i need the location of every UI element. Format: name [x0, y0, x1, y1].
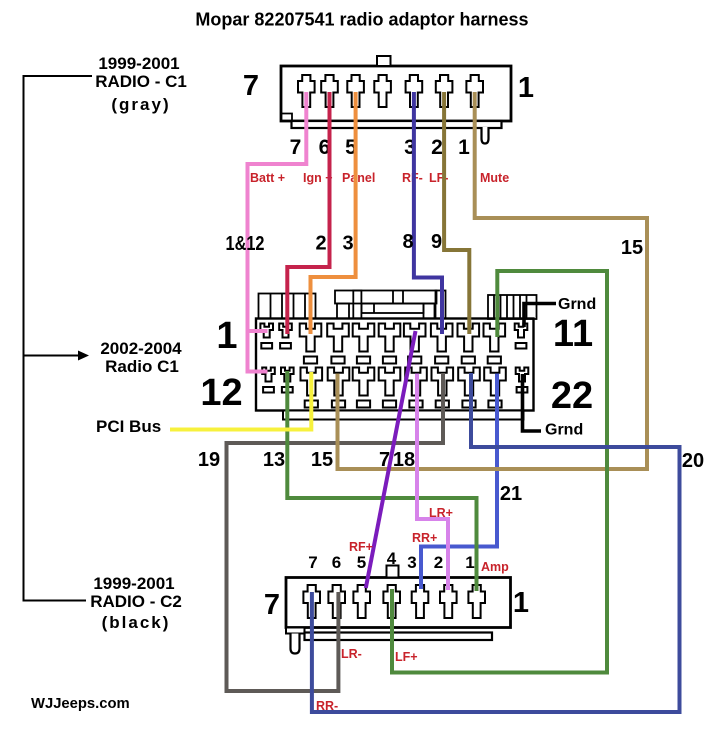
svg-text:RR-: RR- — [316, 699, 338, 713]
connector C1 gray pin cavity 7 — [298, 75, 315, 107]
connector 2002 C1 pin 2 — [279, 324, 292, 338]
wire LR- gray pin19 to C2 pin6 — [227, 373, 444, 691]
wire RR- navy pin20 to C2 pin7 — [312, 373, 680, 712]
svg-text:Batt +: Batt + — [250, 171, 285, 185]
svg-text:2: 2 — [431, 136, 443, 159]
svg-text:1999-2001: 1999-2001 — [93, 574, 174, 593]
svg-text:Grnd: Grnd — [545, 422, 583, 439]
svg-text:1: 1 — [465, 553, 474, 572]
connector 2002 C1 pin 9 — [458, 324, 480, 352]
svg-text:5: 5 — [357, 553, 366, 572]
svg-text:7: 7 — [290, 136, 302, 159]
svg-text:15: 15 — [311, 449, 333, 471]
svg-text:1999-2001: 1999-2001 — [98, 54, 179, 73]
connector 2002 C1 pin 12 — [262, 368, 275, 382]
label 2002-2004 Radio C1 — [100, 339, 182, 376]
connector 2002 C1 pin 4 — [327, 324, 349, 352]
wire Grnd black pin11 — [524, 304, 556, 328]
connector C2 black pin cavity 7 — [303, 585, 320, 618]
connector C2 black pin cavity 1 — [468, 585, 485, 618]
svg-text:11: 11 — [553, 313, 593, 355]
svg-text:Radio C1: Radio C1 — [105, 357, 179, 376]
svg-text:20: 20 — [682, 450, 704, 472]
svg-text:1: 1 — [458, 136, 470, 159]
connector 2002 C1 pin 18 — [405, 368, 427, 396]
svg-text:LR-: LR- — [341, 647, 362, 661]
svg-text:LR+: LR+ — [429, 506, 453, 520]
svg-text:12: 12 — [200, 372, 242, 414]
wire LR+ orchid pin18 to C2 pin2 — [417, 374, 448, 591]
connector C2 black body — [286, 566, 511, 654]
svg-text:9: 9 — [431, 231, 442, 253]
svg-text:3: 3 — [342, 233, 353, 255]
connector 2002 C1 pin 19 — [432, 368, 454, 396]
connector C1 gray pin cavity 6 — [321, 75, 338, 107]
pin numbers C1 gray — [290, 136, 471, 159]
connector 2002 C1 pin 10 — [484, 324, 506, 352]
connector 2002 C1 pin 22 — [516, 368, 529, 382]
svg-text:13: 13 — [263, 449, 285, 471]
label 1999-2001 RADIO - C2 (black) — [90, 574, 182, 632]
svg-text:8: 8 — [402, 231, 413, 253]
svg-text:PCI Bus: PCI Bus — [96, 417, 161, 436]
connector C1 gray body — [281, 56, 511, 144]
connector 2002 C1 pin 7 — [404, 324, 426, 352]
svg-text:Mute: Mute — [480, 171, 509, 185]
connector C2 black pin cavity 3 — [412, 585, 429, 618]
svg-text:22: 22 — [551, 375, 593, 417]
svg-text:(black): (black) — [102, 613, 171, 632]
wire Mute tan pin1 to pin15 — [338, 92, 648, 469]
svg-text:3: 3 — [407, 553, 416, 572]
connector 2002 C1 pin 3 — [300, 324, 322, 352]
connector C1 gray pin cavity 5 — [347, 75, 364, 107]
connector 2002 C1 pin 15 — [328, 368, 350, 396]
svg-text:7: 7 — [243, 70, 259, 102]
wire RF- blueviolet pin3 to pin8 — [414, 92, 442, 334]
connector 2002 C1 pin 17 — [379, 368, 401, 396]
svg-text:6: 6 — [332, 553, 341, 572]
wire Grnd black pin22 — [523, 374, 542, 431]
connector 2002-2004 C1 body — [256, 291, 537, 420]
svg-text:2: 2 — [315, 233, 326, 255]
connector 2002 C1 pin 6 — [379, 324, 401, 352]
svg-text:15: 15 — [621, 237, 643, 259]
svg-text:Grnd: Grnd — [558, 296, 596, 313]
svg-text:Mopar 82207541 radio adaptor h: Mopar 82207541 radio adaptor harness — [195, 10, 528, 30]
svg-text:4: 4 — [387, 549, 397, 568]
svg-text:RF+: RF+ — [349, 540, 373, 554]
bracket line left — [24, 76, 93, 601]
svg-text:21: 21 — [500, 483, 522, 505]
connector 2002 C1 pin 21 — [484, 368, 506, 396]
wire LF+ green pin10 to C2 pin4 — [392, 271, 607, 673]
svg-text:RADIO - C2: RADIO - C2 — [90, 592, 182, 611]
label 1999-2001 RADIO - C1 (gray) — [95, 54, 187, 114]
connector 2002 C1 pin 14 — [301, 368, 323, 396]
svg-text:1: 1 — [513, 587, 529, 619]
connector C1 gray pin cavity 3 — [406, 75, 423, 107]
svg-text:19: 19 — [198, 449, 220, 471]
svg-text:1: 1 — [518, 72, 534, 104]
connector 2002 C1 pin 11 — [515, 324, 528, 338]
wire PCI Bus yellow pin14 — [170, 372, 311, 430]
wire LF- darkkhaki pin2 to pin9 — [444, 92, 469, 334]
wire Panel orange pin5 to pin3 — [311, 92, 356, 334]
wire RR+ blue pin21 to C2 pin3 — [421, 374, 497, 590]
connector 2002 C1 pin 16 — [353, 368, 375, 396]
svg-text:1: 1 — [216, 315, 237, 357]
wire Batt+ pink pin7 to pins 1&12 — [248, 92, 307, 372]
connector C1 gray pin cavity 1 — [466, 75, 483, 107]
connector 2002 C1 pin 8 — [431, 324, 453, 352]
connector C1 gray pin cavity 2 — [436, 75, 453, 107]
svg-text:2: 2 — [434, 553, 443, 572]
svg-text:WJJeeps.com: WJJeeps.com — [31, 696, 130, 712]
svg-text:18: 18 — [393, 449, 415, 471]
svg-text:2002-2004: 2002-2004 — [100, 339, 182, 358]
pin numbers C2 black — [308, 549, 474, 572]
svg-text:LF+: LF+ — [395, 650, 418, 664]
svg-text:1&12: 1&12 — [226, 233, 265, 255]
connector C2 black pin cavity 5 — [353, 585, 370, 618]
svg-text:7: 7 — [264, 589, 280, 621]
connector C2 black pin cavity 2 — [440, 585, 457, 618]
svg-text:7: 7 — [379, 449, 390, 471]
svg-text:Panel: Panel — [342, 171, 375, 185]
wire Amp green pin13 to C2 pin1 — [287, 371, 476, 591]
connector 2002 C1 pin 20 — [458, 368, 480, 396]
connector 2002 C1 pin 5 — [353, 324, 375, 352]
connector C1 gray pin cavity 4 — [374, 75, 391, 107]
svg-text:Amp: Amp — [481, 560, 509, 574]
connector C2 black pin cavity 4 — [383, 585, 400, 618]
svg-text:RR+: RR+ — [412, 531, 437, 545]
wire Ign+ crimson pin6 to pin2 — [287, 92, 329, 334]
connector C2 black pin cavity 6 — [328, 585, 345, 618]
connector 2002 C1 pin 1 — [260, 324, 273, 338]
wire RF+ purple pin7 to C2 pin5 — [366, 331, 416, 588]
connector 2002 C1 pin 13 — [281, 368, 294, 382]
arrow to 2002-2004 Radio C1 — [24, 351, 90, 361]
svg-text:(gray): (gray) — [111, 95, 170, 114]
svg-text:RADIO - C1: RADIO - C1 — [95, 72, 187, 91]
svg-text:7: 7 — [308, 553, 317, 572]
